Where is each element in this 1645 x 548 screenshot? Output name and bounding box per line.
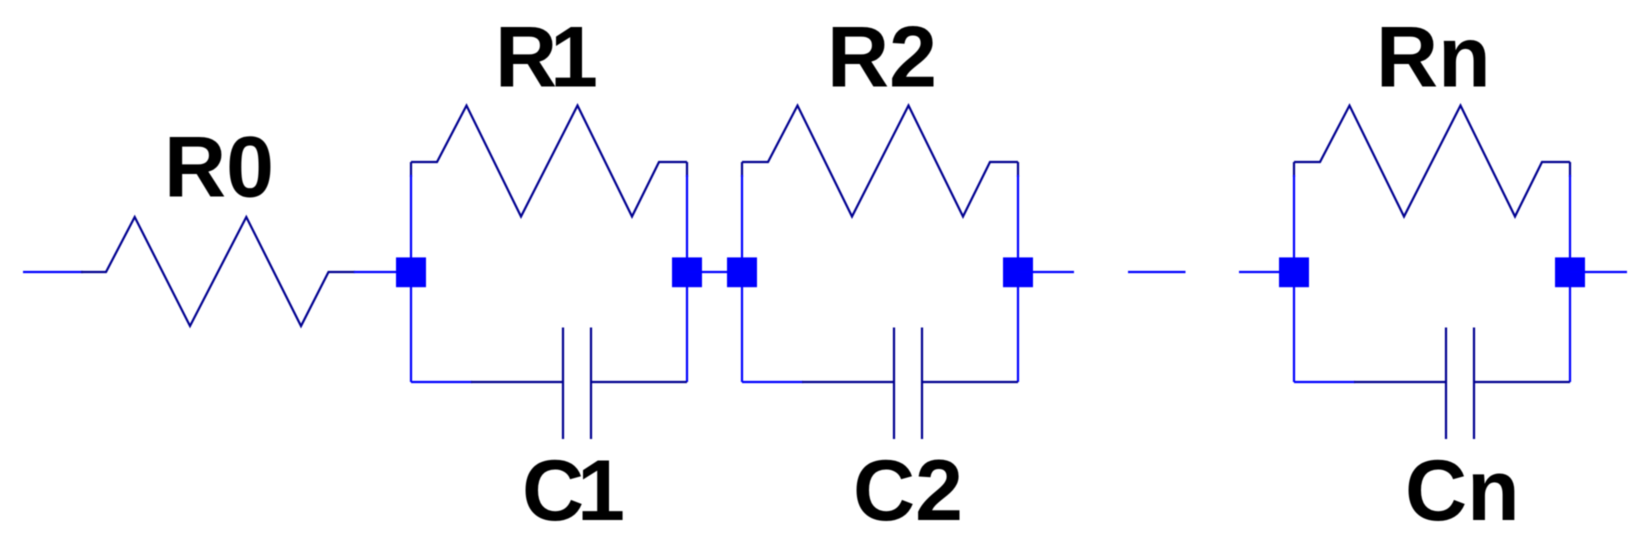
svg-text:Rn: Rn xyxy=(1376,10,1491,106)
wire: block2 bottom left xyxy=(742,381,803,383)
capacitor Cn xyxy=(1354,328,1570,440)
wire: node D stub right xyxy=(1018,271,1074,273)
svg-text:R2: R2 xyxy=(827,10,937,106)
wire: block1 left vertical lower xyxy=(410,175,412,382)
wire: node B to node C xyxy=(687,271,742,273)
wire: block2 right vertical lower xyxy=(1017,175,1019,382)
wire: blockn bottom left xyxy=(1294,381,1355,383)
wire: blockn right vertical upper xyxy=(1569,162,1571,177)
wire: block1 right vertical lower xyxy=(686,175,688,382)
capacitor C2 xyxy=(802,328,1018,440)
svg-text:C2: C2 xyxy=(853,443,963,539)
wire: stub into node E xyxy=(1239,271,1294,273)
wire: R0 to node A xyxy=(354,271,411,273)
wire: block1 bottom left xyxy=(411,381,472,383)
node F xyxy=(1555,257,1585,287)
wire: block1 right vertical upper xyxy=(686,162,688,177)
resistor Rn xyxy=(1294,106,1570,217)
wire: blockn left vertical upper xyxy=(1293,162,1295,177)
wire: block1 left vertical upper xyxy=(410,162,412,177)
svg-text:R1: R1 xyxy=(495,10,598,106)
capacitor C1 xyxy=(471,328,687,440)
resistor R2 xyxy=(742,106,1018,217)
node E xyxy=(1279,257,1309,287)
wire: block2 left vertical upper xyxy=(741,162,743,177)
resistor R1 xyxy=(411,106,687,217)
svg-text:C1: C1 xyxy=(522,443,625,539)
node D xyxy=(1003,257,1033,287)
node C xyxy=(727,257,757,287)
node A xyxy=(396,257,426,287)
wire: ellipsis dash xyxy=(1128,271,1186,273)
node B xyxy=(672,257,702,287)
svg-text:Cn: Cn xyxy=(1405,443,1520,539)
svg-text:R0: R0 xyxy=(164,120,274,216)
wire: right output lead xyxy=(1570,271,1627,273)
wire: block2 left vertical lower xyxy=(741,175,743,382)
wire: blockn right vertical lower xyxy=(1569,175,1571,382)
wire: block2 right vertical upper xyxy=(1017,162,1019,177)
wire: left input lead xyxy=(23,271,83,273)
resistor R0 xyxy=(81,217,355,326)
wire: blockn left vertical lower xyxy=(1293,175,1295,382)
